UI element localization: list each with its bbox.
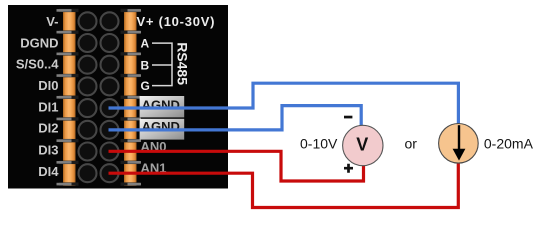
wire AGND (DI1 row) to current source top - blue — [109, 83, 459, 123]
wire AN0 to voltmeter plus - red — [109, 151, 364, 181]
current source arrow — [453, 125, 466, 160]
svg-text:V: V — [356, 134, 368, 154]
terminal row separators — [57, 9, 142, 186]
svg-text:AGND: AGND — [142, 119, 180, 134]
svg-text:B: B — [141, 59, 150, 73]
svg-text:DGND: DGND — [20, 35, 58, 50]
voltmeter negative terminal mark — [344, 116, 352, 119]
AGND highlight box 2 — [140, 119, 185, 140]
svg-text:DI2: DI2 — [38, 121, 58, 136]
svg-text:V+ (10-30V): V+ (10-30V) — [137, 14, 216, 29]
svg-text:V-: V- — [46, 14, 58, 29]
orange rail left — [63, 9, 76, 186]
voltmeter V1 body — [343, 125, 383, 165]
terminal holes right column — [101, 12, 119, 182]
svg-text:S/S0..4: S/S0..4 — [16, 56, 59, 71]
svg-text:AGND: AGND — [142, 97, 180, 112]
svg-text:DI3: DI3 — [38, 142, 58, 157]
terminal block body — [8, 5, 228, 189]
svg-text:DI4: DI4 — [38, 164, 59, 179]
orange rail right — [124, 9, 137, 186]
AGND highlight box 1 — [140, 96, 185, 117]
RS485 bracket — [152, 43, 172, 86]
terminal holes left column — [79, 12, 97, 182]
svg-text:RS485: RS485 — [175, 42, 191, 85]
svg-text:DI0: DI0 — [38, 78, 58, 93]
wire AN1 to current source bottom - red — [109, 163, 459, 208]
svg-text:G: G — [141, 79, 150, 93]
svg-text:0-10V: 0-10V — [300, 136, 338, 152]
current source I1 body — [439, 124, 479, 164]
svg-text:0-20mA: 0-20mA — [484, 136, 534, 152]
voltmeter positive terminal mark — [344, 164, 353, 173]
svg-text:or: or — [405, 136, 418, 152]
wire AGND (DI2 row) to voltmeter minus - blue — [109, 106, 362, 130]
svg-text:DI1: DI1 — [38, 99, 58, 114]
svg-text:A: A — [141, 37, 150, 51]
